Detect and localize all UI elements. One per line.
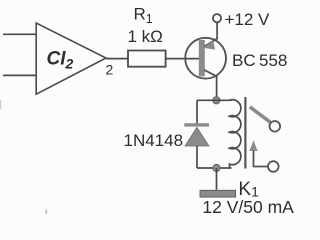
wire collector down to node A [216, 77, 218, 101]
svg-text:1N4148: 1N4148 [124, 131, 184, 150]
scan artifact left edge [0, 100, 1, 109]
node A (junction dot top) [213, 97, 220, 104]
relay contact arm [250, 107, 270, 122]
wire top rail (node A to diode and coil) [197, 99, 232, 101]
wire bottom rail (diode to coil) [197, 167, 232, 169]
wire diode anode down to bottom rail [196, 146, 198, 168]
node B (junction dot bottom) [213, 164, 220, 171]
transistor Q1 emitter arrow (PNP) [203, 41, 216, 50]
svg-text:BC 558: BC 558 [232, 51, 287, 70]
wire input 1 of CI2 [3, 33, 37, 35]
svg-text:2: 2 [106, 62, 114, 78]
power terminal +12V (circle) [213, 14, 221, 22]
transistor Q1 base bar [199, 40, 205, 77]
diode D1 cathode bar [184, 123, 209, 126]
transistor Q1 collector line [204, 70, 218, 77]
resistor R1 (box) [128, 51, 166, 67]
wire gate output to R1 [106, 58, 129, 60]
transistor Q1 emitter line [204, 38, 218, 47]
relay K1 core line [244, 97, 246, 169]
wire node B down to ground [216, 168, 218, 190]
diode D1 (triangle, anode bottom) [185, 127, 209, 146]
wire R1 to base of Q1 [166, 58, 200, 60]
relay actuation arrow [249, 140, 257, 151]
svg-text:+12 V: +12 V [225, 10, 271, 29]
ground [200, 190, 236, 197]
wire node A down to diode cathode [196, 100, 198, 123]
scan artifact fleck [46, 210, 48, 215]
gate CI2 (triangle body) [36, 23, 106, 94]
svg-text:12 V/50 mA: 12 V/50 mA [202, 197, 294, 217]
relay contact terminal lower (circle) [268, 161, 279, 172]
relay K1 coil [230, 100, 241, 168]
wire input 2 of CI2 [3, 74, 37, 76]
transistor Q1 BC558 (body circle) [185, 38, 226, 79]
svg-text:1 kΩ: 1 kΩ [128, 27, 163, 46]
relay contact terminal upper (circle) [270, 121, 281, 132]
wire arrow stem [254, 151, 269, 167]
wire +12V to emitter [216, 22, 218, 39]
